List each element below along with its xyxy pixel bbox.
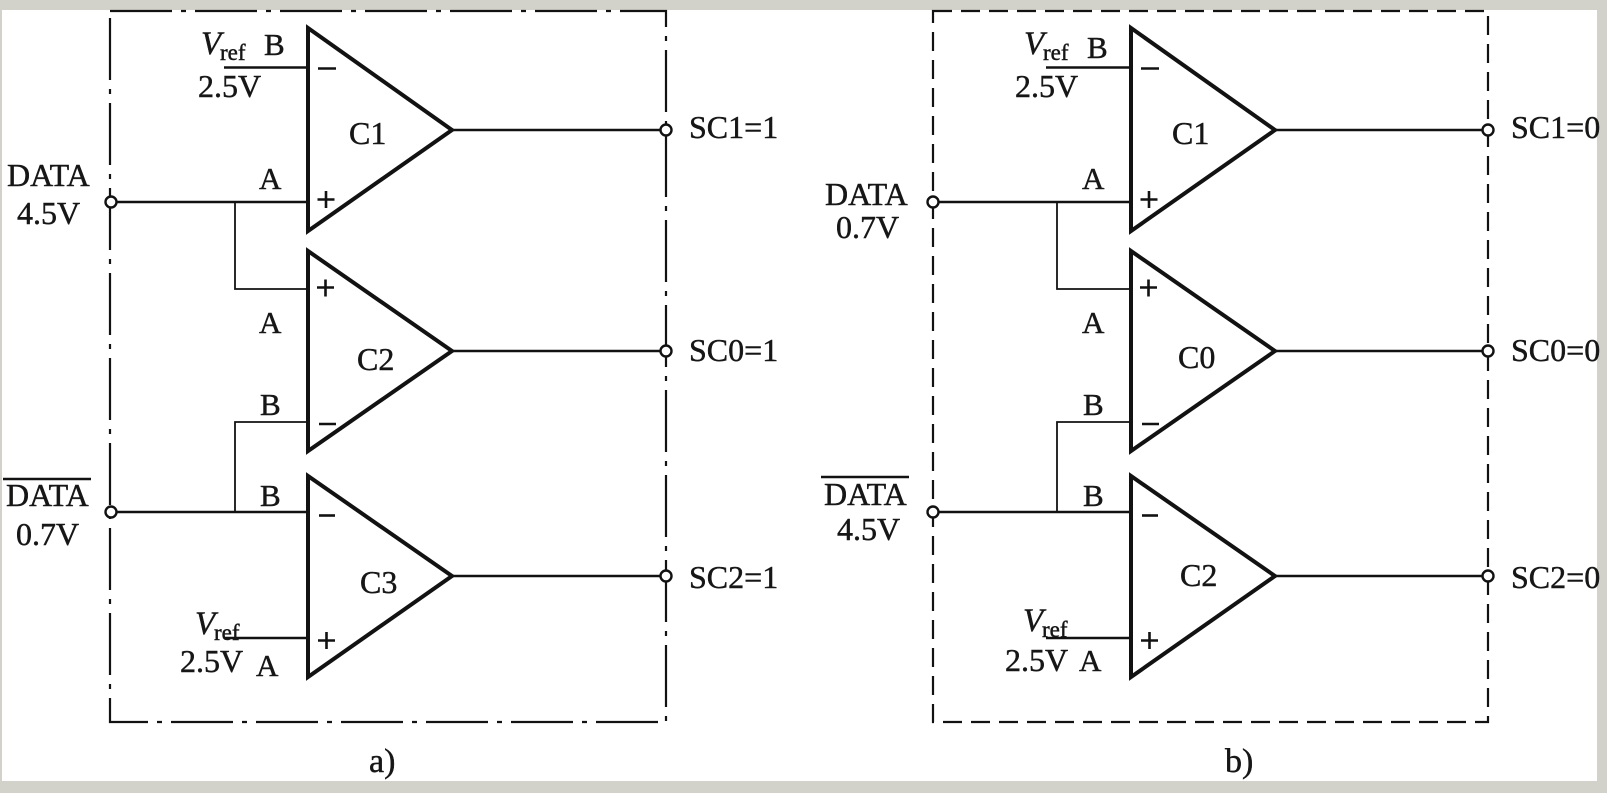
node SC2 output terminal (panel a) [661,571,672,582]
C2 non-inverting input marker (panel b) [1141,632,1158,649]
scanner gray frame right [1597,0,1607,793]
svg-text:a): a) [369,743,395,780]
svg-text:B: B [1087,30,1108,65]
svg-text:4.5V: 4.5V [17,195,80,231]
wire C0 output (panel b) [1275,350,1482,352]
node DATA input terminal (panel b) [928,197,939,208]
svg-text:SC0=1: SC0=1 [689,332,778,368]
svg-text:ref: ref [214,620,240,645]
svg-text:2.5V: 2.5V [180,643,243,679]
label Vref (C3) [195,606,240,645]
wire node B jog C0 inverting down to DATA-bar (panel b) [1057,422,1131,512]
C1 non-inverting input marker (panel b) [1141,191,1158,208]
svg-text:DATA: DATA [6,477,89,513]
svg-text:A: A [1079,643,1102,678]
scanner gray frame left [0,0,2,793]
svg-text:C2: C2 [1180,557,1217,593]
C2 inverting input marker [319,423,336,426]
wire C2 output (panel b) [1275,575,1482,577]
C3 non-inverting input marker [318,632,335,649]
node DATA-bar input terminal (panel a) [106,507,117,518]
wire Vref to C1 inverting input (panel b) [1046,66,1131,68]
wire C2 output [452,350,660,352]
label Vref (C2 panel b) [1023,603,1068,642]
node SC1 output terminal (panel b) [1483,125,1494,136]
svg-text:ref: ref [220,40,246,65]
svg-text:DATA: DATA [7,157,90,193]
svg-text:4.5V: 4.5V [837,511,900,547]
wire node B jog C2 inverting down to DATA-bar [235,422,308,512]
wire C1 output [452,129,660,131]
comparator C2 (panel b) [1131,476,1275,677]
wire DATA to C1 non-inverting input [116,201,308,203]
svg-text:C3: C3 [360,564,397,600]
comparator C2 (panel a) [308,251,452,451]
svg-text:2.5V: 2.5V [1015,68,1078,104]
comparator C1 (panel b) [1131,28,1275,231]
label DATA-bar (panel b) [821,476,909,512]
svg-text:A: A [259,305,282,340]
comparator C1 (panel a) [308,28,452,231]
svg-text:A: A [1082,305,1105,340]
node SC1 output terminal (panel a) [661,125,672,136]
svg-text:2.5V: 2.5V [198,68,261,104]
C2 non-inverting input marker [317,280,334,297]
frame b (dashed boundary) [933,11,1488,722]
scanner gray frame bottom [0,781,1607,793]
svg-text:DATA: DATA [824,476,907,512]
svg-text:0.7V: 0.7V [16,516,79,552]
svg-text:SC2=1: SC2=1 [689,559,778,595]
comparator C3 (panel a) [308,476,452,677]
node SC0 output terminal (panel b) [1483,346,1494,357]
node SC0 output terminal (panel a) [661,346,672,357]
svg-text:B: B [1083,387,1104,422]
svg-text:DATA: DATA [825,176,908,212]
wire node A jog down to C0 (panel b) [1057,202,1131,289]
svg-text:B: B [260,387,281,422]
C0 non-inverting input marker [1140,280,1157,297]
wire node A jog down to C2 [235,202,308,289]
svg-text:SC0=0: SC0=0 [1511,332,1600,368]
node SC2 output terminal (panel b) [1483,571,1494,582]
svg-text:A: A [256,648,279,683]
label Vref (C1 panel b) [1024,26,1069,65]
wire Vref to C2 non-inverting input (panel b) [1046,637,1131,639]
svg-text:b): b) [1225,743,1253,780]
C1 non-inverting input marker [318,191,335,208]
label Vref (C1) [201,26,246,65]
svg-text:C1: C1 [349,115,386,151]
wire C1 output (panel b) [1275,129,1482,131]
label DATA-bar (panel a) [3,477,91,513]
svg-text:C0: C0 [1178,339,1215,375]
svg-text:C2: C2 [357,341,394,377]
C1 inverting input marker (panel b) [1141,67,1159,70]
frame a (dash-dot boundary) [110,11,666,722]
C1 inverting input marker [318,67,336,70]
C2 inverting input marker (panel b) [1142,514,1158,517]
node DATA-bar input terminal (panel b) [928,507,939,518]
svg-text:0.7V: 0.7V [836,209,899,245]
svg-text:SC1=0: SC1=0 [1511,109,1600,145]
wire C3 output [452,575,660,577]
wire DATA-bar to C3 inverting input [116,511,308,513]
svg-text:SC2=0: SC2=0 [1511,559,1600,595]
svg-text:SC1=1: SC1=1 [689,109,778,145]
svg-text:2.5V: 2.5V [1005,642,1068,678]
node DATA input terminal (panel a) [106,197,117,208]
svg-text:ref: ref [1043,40,1069,65]
svg-text:B: B [1083,478,1104,513]
svg-text:B: B [260,478,281,513]
svg-text:C1: C1 [1172,115,1209,151]
svg-text:A: A [259,161,282,196]
wire DATA-bar to C2 inverting input (panel b) [939,511,1131,513]
comparator C0 (panel b) [1131,251,1275,451]
C0 inverting input marker [1142,423,1159,426]
C3 inverting input marker [319,514,335,517]
wire DATA to C1 non-inverting input (panel b) [939,201,1131,203]
svg-text:A: A [1082,161,1105,196]
wire Vref to C3 non-inverting input [224,637,308,639]
svg-text:B: B [264,27,285,62]
scanner gray frame top [0,0,1607,10]
svg-text:ref: ref [1042,617,1068,642]
wire Vref to C1 inverting input [224,66,308,68]
